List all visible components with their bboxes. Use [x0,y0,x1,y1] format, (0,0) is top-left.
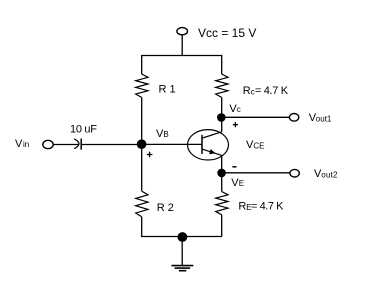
svg-text:CE: CE [253,141,264,150]
terminal Vcc [177,28,188,35]
svg-text:out1: out1 [316,114,332,123]
wire VE to RE [221,173,223,192]
wire capacitor to node VB [82,144,141,146]
wire collector drop [221,117,223,131]
wire RC to node VC [221,97,223,117]
wire RE to bottom rail [221,215,223,237]
svg-text:in: in [23,140,29,149]
terminal Vin [43,140,53,148]
ground [171,266,193,271]
wire Vcc stub [181,35,183,56]
resistor R1 [136,74,148,97]
svg-text:B: B [163,130,168,139]
capacitor C1 curved plate [74,139,79,149]
svg-text:= 4.7 K: = 4.7 K [255,85,289,97]
svg-text:V: V [15,138,23,150]
resistor R2 [136,191,148,217]
wire base [142,143,202,145]
label plus at base [147,152,153,158]
capacitor C1 straight plate [80,139,82,150]
label minus at emitter [232,166,236,168]
wire emitter drop [221,155,223,173]
wire bottom rail [141,236,222,238]
wire top rail [142,56,222,75]
svg-text:out2: out2 [321,170,338,179]
svg-text:R: R [238,201,246,213]
wire ground stub [181,237,183,266]
wire VE to Vout2 [222,172,290,174]
terminal Vout2 [290,169,299,177]
terminal Vout1 [289,114,298,122]
node ground junction [178,232,188,242]
svg-text:R 2: R 2 [157,202,174,214]
wire Vin to capacitor [53,144,78,146]
svg-text:Vcc = 15 V: Vcc = 15 V [198,26,256,40]
node VC [217,113,226,122]
transistor Q1 [188,130,229,160]
wire R1 to node VB [141,97,143,144]
svg-text:E: E [239,179,244,188]
svg-text:R 1: R 1 [159,84,176,96]
wire R2 to bottom rail [141,217,143,237]
node VB [137,139,147,149]
svg-text:= 4.7 K: = 4.7 K [251,201,284,213]
node VE [217,169,226,178]
wire VC to Vout1 [222,116,290,118]
label plus at collector [233,122,238,127]
wire VB to R2 [141,144,143,191]
svg-text:c: c [237,105,241,114]
resistor RC [216,74,228,97]
svg-text:10 uF: 10 uF [70,124,97,136]
svg-text:R: R [243,85,251,97]
resistor RE [216,192,228,215]
